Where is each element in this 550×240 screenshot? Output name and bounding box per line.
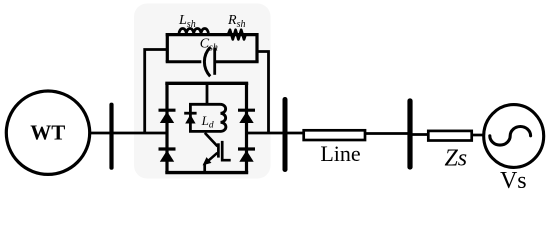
capacitor Csh straight plate [213, 48, 216, 75]
diode D4 (right bottom) [238, 149, 255, 162]
IGBT Q1 emitter arrow [203, 157, 212, 165]
IGBT Q1 gate bar [222, 141, 231, 160]
LC loop top rail [166, 33, 257, 36]
inductor Lsh [179, 28, 208, 34]
IGBT Q1 emitter lead [207, 153, 218, 163]
diode D3 (right top) [238, 110, 255, 123]
svg-text:Vs: Vs [500, 168, 527, 192]
wire Zs to source Vs [472, 134, 484, 137]
bus B3 [407, 98, 412, 169]
svg-text:Line: Line [320, 141, 360, 166]
transmission line impedance box "Line" [304, 130, 365, 140]
wire bridge top rail to Ld loop tap [206, 83, 209, 104]
bus B2 [283, 97, 288, 172]
IGBT Q1 collector lead [205, 133, 218, 147]
Ld loop top rail [189, 103, 221, 106]
svg-text:Zs: Zs [444, 145, 467, 171]
diode D1 (left top) [159, 110, 176, 123]
bus B1 [109, 103, 113, 170]
bridge bottom rail [165, 171, 248, 174]
diode D2 (left bottom) [159, 149, 176, 162]
wire bridge output to bus B2 and Line [247, 132, 305, 135]
Ld loop left branch [189, 104, 192, 131]
FCL module background panel [134, 4, 271, 179]
Ld loop bottom rail [189, 130, 221, 133]
bridge top rail [165, 82, 248, 85]
wire bus B3 to Zs [411, 133, 429, 136]
wire Line box to bus B3 [365, 132, 411, 135]
bridge right leg [245, 83, 248, 172]
AC source sine wave [490, 127, 531, 146]
IGBT Q1 body bar [217, 143, 220, 157]
diode D5 (freewheeling, on Ld loop left branch) [184, 113, 196, 123]
AC grid source Vs circle [484, 105, 544, 168]
wire WT to bus B1 and bridge input [90, 132, 167, 135]
inductor Ld (coil, right branch of loop) [221, 104, 226, 131]
bridge left leg [165, 83, 168, 172]
capacitor branch left wire [166, 60, 202, 63]
source impedance box Zs [428, 131, 471, 141]
svg-text:WT: WT [30, 121, 65, 145]
wire shunt branch output (right riser) [257, 52, 269, 134]
LC loop left vertical [166, 33, 169, 62]
wind turbine generator WT circle [6, 91, 89, 174]
capacitor Csh curved plate [204, 47, 210, 76]
wire shunt branch input (left riser) [145, 50, 168, 134]
resistor Rsh [228, 30, 246, 40]
LC loop right vertical [255, 33, 258, 62]
IGBT Q1 emitter wire to bottom rail [203, 164, 206, 173]
capacitor branch right wire [215, 60, 259, 63]
